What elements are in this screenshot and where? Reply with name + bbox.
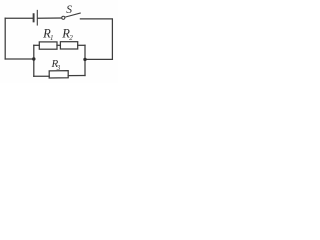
wire mid-rail node B to right [85,58,112,60]
node B junction dot [83,58,86,61]
wire mid-rail left to node A [5,58,34,60]
wire R3 to node B corner [68,75,85,77]
wire bottom branch A corner to R3 [34,75,49,77]
wire switch to top-right corner and right vertical [80,19,112,60]
svg-text:3: 3 [56,64,61,72]
resistor R2 box [60,42,77,49]
resistor R1 box [39,42,57,49]
wire branch1 lead A to R1 [34,44,40,46]
vertical wire through node B x=85 [84,45,86,75]
switch S pivot circle [62,16,65,19]
svg-text:S: S [66,4,72,16]
wire R1 to R2 [57,44,60,46]
wire battery to switch [38,17,62,19]
resistor R3 box (slightly tilted scan) [49,71,68,78]
switch S blade (open) [65,13,80,17]
node A junction dot [32,57,35,60]
wire top-left horizontal [5,17,33,19]
svg-text:1: 1 [50,34,54,42]
battery B1 short plate [33,14,35,21]
wire R2 to node B vertical [78,44,85,46]
battery B1 long plate [36,10,38,25]
svg-text:2: 2 [69,34,73,42]
left vertical wire [4,18,6,59]
vertical wire through node A x=33.8 [33,45,35,76]
